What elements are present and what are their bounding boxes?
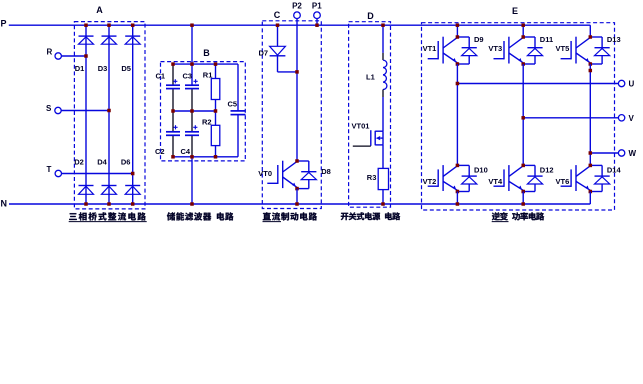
wire P rail (positive DC bus)	[9, 24, 591, 26]
wire S to bridge	[61, 110, 109, 112]
node B bus 192,111	[190, 109, 194, 113]
terminal P2	[294, 12, 301, 19]
transistor VT2	[442, 165, 444, 191]
caption section B 储能滤波器电路	[167, 212, 234, 220]
wire P2 to chopper	[296, 19, 298, 162]
node emitter VT2	[456, 190, 460, 194]
wire emitter lead VT6	[589, 192, 591, 205]
node T junction	[131, 172, 135, 176]
svg-text:R: R	[47, 48, 53, 57]
node DC-link P rail	[190, 23, 194, 27]
section box D	[349, 22, 391, 208]
capacitor C4	[185, 131, 199, 133]
terminal U	[618, 80, 624, 86]
diode D10	[468, 165, 470, 176]
node W leg extra	[589, 69, 593, 73]
wire collector connector VT2	[457, 164, 469, 166]
wire VT0 emitter to N	[296, 189, 298, 204]
svg-text:D3: D3	[98, 64, 108, 73]
wire B top bus	[173, 63, 238, 65]
transistor VT5	[575, 37, 577, 64]
diode D7	[270, 46, 286, 55]
terminal P1	[314, 12, 321, 19]
wire PSU from P rail	[382, 25, 384, 53]
diode D6	[125, 185, 140, 187]
diode D1	[79, 35, 94, 37]
transistor VT0	[282, 161, 284, 188]
node collector VT3	[521, 35, 525, 39]
node collector VT5	[589, 35, 593, 39]
svg-text:D11: D11	[540, 35, 553, 44]
inductor L1	[382, 53, 384, 60]
svg-text:R1: R1	[203, 71, 213, 80]
node B bus 215.5,64.1	[214, 62, 218, 66]
svg-text:C2: C2	[155, 147, 165, 156]
transistor VT01 (MOSFET)	[375, 130, 383, 132]
wire collector connector VT3	[523, 36, 535, 38]
terminal T	[55, 170, 61, 176]
caption section A 三相桥式整流电路	[69, 212, 146, 220]
wire emitter connector VT3	[523, 63, 535, 65]
svg-text:W: W	[629, 149, 637, 158]
svg-text:V: V	[629, 114, 635, 123]
node D7 junction	[295, 70, 299, 74]
wire collector connector VT0	[297, 160, 309, 162]
svg-text:P: P	[1, 19, 7, 29]
node emitter VT0	[295, 187, 299, 191]
diode D9	[468, 37, 470, 48]
svg-text:D9: D9	[474, 35, 484, 44]
wire emitter connector VT2	[457, 191, 469, 193]
transistor VT4	[508, 165, 510, 191]
wire C2 branch	[172, 111, 174, 131]
wire P1 stub	[316, 19, 318, 26]
node VT2 N rail	[456, 202, 460, 206]
svg-text:D8: D8	[321, 167, 331, 176]
wire collector lead VT3	[522, 25, 524, 37]
wire N rail (negative DC bus)	[9, 203, 590, 205]
wire D7 to node	[277, 56, 279, 72]
diode D13	[601, 37, 603, 48]
svg-text:D14: D14	[607, 166, 622, 175]
wire U phase leg	[456, 64, 458, 165]
svg-text:N: N	[1, 199, 8, 209]
wire T to bridge	[62, 173, 133, 175]
node B bus 215.5,156.8	[214, 155, 218, 159]
node VT1 P rail	[456, 23, 460, 27]
section box C	[262, 21, 321, 209]
wire B middle bus	[173, 110, 216, 112]
wire DC-link vertical	[191, 25, 193, 84]
svg-text:D12: D12	[540, 166, 554, 175]
wire collector connector VT4	[523, 164, 535, 166]
wire B bottom bus	[173, 156, 238, 158]
node collector VT4	[521, 164, 525, 168]
terminal S	[55, 107, 61, 113]
wire emitter lead VT2	[456, 192, 458, 205]
section box B	[161, 62, 246, 161]
svg-text:E: E	[512, 6, 518, 16]
node leg1 P rail	[84, 23, 88, 27]
wire collector connector VT5	[590, 36, 602, 38]
svg-text:VT01: VT01	[352, 122, 370, 131]
svg-text:D13: D13	[607, 35, 621, 44]
wire bridge leg 2	[108, 25, 110, 204]
svg-text:T: T	[47, 165, 52, 174]
svg-text:D2: D2	[74, 157, 84, 166]
wire C1 branch	[172, 64, 174, 85]
svg-text:VT6: VT6	[556, 177, 570, 186]
wire bridge leg 1	[85, 25, 87, 204]
svg-text:D7: D7	[259, 49, 269, 58]
node B bus 215.5,111	[214, 109, 218, 113]
diode D2	[79, 185, 94, 187]
wire D7 branch vertical	[277, 25, 279, 46]
node DC-link N rail	[190, 202, 194, 206]
diode D3	[102, 35, 117, 37]
wire L1 to VT01	[382, 97, 384, 131]
node emitter VT5	[589, 62, 593, 66]
capacitor C5	[237, 64, 239, 111]
wire U output	[457, 83, 618, 85]
svg-text:A: A	[96, 5, 103, 15]
node B bus 173,64.1	[171, 62, 175, 66]
wire collector lead VT5	[589, 25, 591, 37]
svg-text:D1: D1	[75, 64, 85, 73]
svg-text:D6: D6	[121, 157, 131, 166]
capacitor C1	[166, 84, 180, 86]
diode D4	[102, 185, 117, 187]
caption section E 逆变功率电路	[492, 212, 544, 220]
wire emitter connector VT5	[590, 63, 602, 65]
wire R to bridge	[61, 55, 86, 57]
svg-text:D10: D10	[474, 166, 488, 175]
node emitter VT3	[521, 62, 525, 66]
node leg2 P rail	[107, 23, 111, 27]
node B bus 173,111	[171, 109, 175, 113]
node B bus 173,156.8	[171, 155, 175, 159]
node R junction	[84, 54, 88, 58]
svg-text:U: U	[629, 80, 635, 89]
diode D12	[534, 165, 536, 176]
wire emitter lead VT4	[522, 192, 524, 205]
capacitor C3	[185, 84, 199, 86]
node B top bus DC-link	[190, 62, 194, 66]
node VT0 N rail	[295, 202, 299, 206]
svg-text:C5: C5	[228, 100, 238, 109]
svg-text:D: D	[367, 11, 374, 21]
diode D14	[601, 165, 603, 176]
wire emitter connector VT1	[457, 63, 469, 65]
wire emitter connector VT4	[523, 191, 535, 193]
svg-text:VT1: VT1	[423, 44, 437, 53]
svg-text:S: S	[46, 104, 52, 113]
svg-text:VT0: VT0	[258, 169, 272, 178]
svg-text:D4: D4	[97, 157, 107, 166]
node V junction	[521, 116, 525, 120]
wire W output	[590, 152, 618, 154]
svg-text:VT2: VT2	[423, 177, 437, 186]
capacitor C2	[166, 131, 180, 133]
wire bridge leg 3	[132, 25, 134, 204]
node U junction	[456, 82, 460, 86]
svg-text:VT4: VT4	[488, 177, 503, 186]
svg-text:C3: C3	[183, 72, 193, 81]
svg-text:C1: C1	[156, 72, 166, 81]
resistor R3	[378, 168, 388, 189]
svg-text:VT5: VT5	[556, 44, 570, 53]
transistor VT6	[575, 165, 577, 191]
node emitter VT1	[456, 62, 460, 66]
wire emitter connector VT6	[590, 191, 602, 193]
wire collector connector VT6	[590, 164, 602, 166]
node collector VT2	[456, 164, 460, 168]
node emitter VT6	[589, 190, 593, 194]
wire emitter connector VT0	[297, 188, 309, 190]
node collector VT0	[295, 159, 299, 163]
node collector VT1	[456, 35, 460, 39]
node PSU N rail	[381, 202, 385, 206]
wire W phase leg	[589, 64, 591, 165]
node leg1 N rail	[84, 202, 88, 206]
diode D11	[534, 37, 536, 48]
svg-text:L1: L1	[366, 72, 375, 81]
transistor VT3	[508, 37, 510, 64]
transistor VT1	[442, 37, 444, 64]
node leg2 N rail	[107, 202, 111, 206]
node B bus 192,156.8	[190, 155, 194, 159]
caption section C 直流制动电路	[263, 212, 317, 220]
wire collector connector VT1	[457, 36, 469, 38]
svg-text:B: B	[203, 48, 210, 58]
node emitter VT4	[521, 190, 525, 194]
node VT4 N rail	[521, 202, 525, 206]
wire V output	[523, 117, 618, 119]
wire collector lead VT1	[456, 25, 458, 37]
section box A	[74, 22, 145, 209]
node P1 rail	[315, 23, 319, 27]
svg-text:R2: R2	[202, 117, 212, 126]
node S junction	[107, 109, 111, 113]
node PSU P rail	[381, 23, 385, 27]
terminal V	[618, 115, 624, 121]
caption section D 开关式电源电路	[341, 212, 400, 220]
diode D5	[125, 35, 140, 37]
svg-text:R3: R3	[367, 173, 377, 182]
svg-text:P1: P1	[312, 2, 322, 11]
node VT3 P rail	[521, 23, 525, 27]
wire VT01 to R3	[382, 145, 384, 169]
node D7 P rail	[276, 23, 280, 27]
section box E	[422, 23, 615, 210]
diode D8	[308, 161, 310, 172]
node W junction	[589, 151, 593, 155]
svg-text:C: C	[274, 10, 281, 20]
wire R3 to N rail	[382, 190, 384, 204]
node collector VT6	[589, 164, 593, 168]
terminal R	[55, 53, 61, 59]
svg-text:P2: P2	[292, 2, 302, 11]
node leg3 P rail	[131, 23, 135, 27]
svg-text:D5: D5	[121, 64, 131, 73]
resistor R2	[215, 111, 217, 125]
svg-text:C4: C4	[181, 147, 191, 156]
node leg3 N rail	[131, 202, 135, 206]
terminal W	[618, 150, 624, 156]
wire V phase leg	[522, 64, 524, 165]
svg-text:VT3: VT3	[488, 44, 502, 53]
resistor R1	[215, 64, 217, 78]
